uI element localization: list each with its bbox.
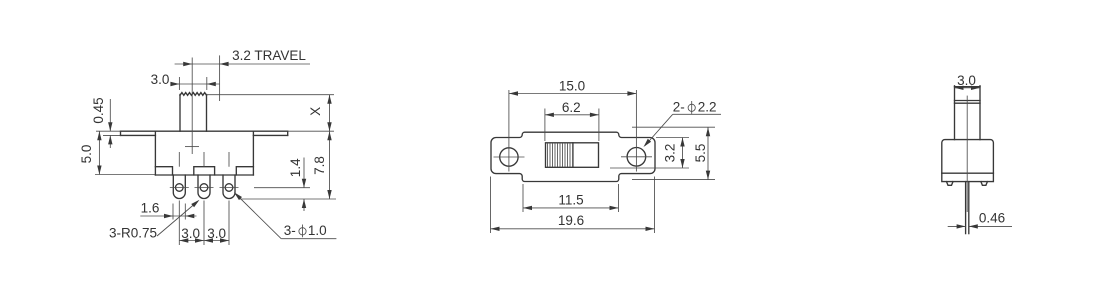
pin 2 outline — [198, 175, 210, 199]
dimension 3.0 knob left arrow — [170, 82, 179, 86]
svg-text:3.0: 3.0 — [151, 72, 170, 87]
knob hidden bottom line — [185, 146, 199, 148]
flange right end cap — [287, 131, 289, 135]
knob top extension line — [207, 94, 335, 96]
dimension 15.0 line — [509, 93, 636, 95]
side center line — [966, 96, 968, 212]
svg-text:5.0: 5.0 — [79, 145, 94, 164]
dimension X and 7.8 vertical line — [329, 95, 331, 199]
svg-text:3-: 3- — [284, 223, 296, 238]
dimension 11.5 right arrow — [610, 206, 619, 210]
svg-text:3.0: 3.0 — [957, 73, 976, 88]
svg-text:3.0: 3.0 — [207, 226, 226, 241]
dimension 3.0 side line — [955, 87, 981, 89]
pin 1 hole — [176, 184, 184, 192]
dimension 5.5 bottom arrow — [706, 171, 710, 180]
body bottom left extension line — [95, 174, 155, 176]
knob right extension line — [206, 77, 208, 90]
plate and body outline — [491, 132, 655, 181]
dimension 5.0 line — [98, 131, 100, 174]
pin 1 outline — [173, 175, 185, 199]
mounting hole right horizontal center line — [621, 156, 652, 158]
svg-text:19.6: 19.6 — [558, 213, 584, 228]
slot opening — [546, 143, 599, 168]
flange left end cap — [120, 131, 122, 135]
pin 2 hole horizontal center line — [195, 187, 214, 189]
pitch left arrow — [179, 238, 188, 242]
dimension 3.2 TRAVEL left arrow — [183, 62, 192, 66]
dimension 3.2 line — [682, 138, 684, 169]
dimension 3.0 pitch line — [179, 240, 229, 242]
pin 1 hole horizontal center line — [170, 187, 189, 189]
knob left side — [179, 95, 181, 132]
mounting hole right vertical center line — [635, 90, 637, 172]
dimension 11.5 line — [523, 207, 619, 209]
svg-text:11.5: 11.5 — [558, 193, 583, 208]
dimension 3.0 knob right arrow — [207, 82, 216, 86]
leader 3-phi1.0 arrow — [234, 192, 242, 200]
dimension 5.0 bottom arrow — [97, 166, 101, 175]
svg-text:15.0: 15.0 — [559, 78, 585, 93]
knob center line — [191, 58, 193, 155]
dimension 1.6 line — [140, 215, 196, 217]
svg-text:6.2: 6.2 — [562, 100, 581, 115]
leader 3-phi1.0 line — [236, 194, 281, 239]
ear top extension line — [656, 137, 689, 139]
ear bottom extension line — [610, 167, 689, 169]
dimension 7.8 top arrow — [327, 131, 331, 140]
leader 3-R0.75 — [157, 202, 198, 237]
dimension 15.0 left arrow — [509, 91, 518, 95]
dimension 0.46 right arrow — [969, 224, 978, 228]
slot right extension line — [598, 109, 600, 142]
knob serrated top — [180, 93, 207, 96]
svg-text:2.2: 2.2 — [698, 100, 717, 115]
pin 2 hole — [200, 184, 208, 192]
svg-text:3.2: 3.2 — [663, 144, 678, 163]
dimension 1.4 upper arrow — [302, 179, 306, 188]
slider knob hatch — [548, 143, 571, 167]
svg-text:3.0: 3.0 — [181, 226, 200, 241]
dimension X bottom arrow — [327, 122, 331, 131]
body right side — [252, 131, 254, 175]
slider knob right edge — [572, 143, 574, 168]
flange bottom left extension line — [103, 134, 121, 136]
leader 3-phi1.0 shelf — [281, 238, 336, 240]
pin bottom extension line — [240, 198, 336, 200]
pin 2 center line inside body — [203, 152, 205, 167]
body center tab interior line — [194, 167, 215, 175]
body right ledge interior line — [236, 167, 253, 175]
dimension 15.0 right arrow — [627, 91, 636, 95]
dimension 5.5 top arrow — [706, 127, 710, 136]
pin 3 outline — [223, 175, 235, 199]
leader 2-phi2.2 arrow — [644, 139, 652, 147]
svg-text:1.4: 1.4 — [288, 158, 303, 177]
svg-text:0.46: 0.46 — [979, 211, 1005, 226]
knob band lower line — [955, 102, 981, 104]
dimension 19.6 right arrow — [646, 227, 655, 231]
svg-text:1.0: 1.0 — [308, 223, 327, 238]
dimension 3.2 top arrow — [680, 138, 684, 147]
pin 1 center line inside body — [178, 152, 180, 167]
knob top edge — [955, 86, 981, 88]
dimension 0.45 lower arrow — [108, 135, 112, 144]
leader 2-phi2.2 line — [645, 114, 673, 145]
dimension 7.8 bottom arrow — [327, 190, 331, 199]
side pin left edge — [965, 182, 967, 234]
body right extension line — [618, 184, 620, 212]
svg-text:3-R0.75: 3-R0.75 — [109, 226, 157, 241]
dimension 6.2 left arrow — [545, 113, 554, 117]
dimension 19.6 left arrow — [491, 227, 500, 231]
dimension 6.2 line — [545, 114, 599, 116]
body left ledge interior line — [155, 167, 172, 175]
pin 3 hole horizontal center line — [220, 187, 239, 189]
pitch right arrow — [220, 238, 229, 242]
knob right side — [206, 95, 208, 132]
dimension 0.46 right line — [969, 225, 1012, 227]
body left extension line — [522, 184, 524, 212]
pin 1 left edge extension line — [172, 204, 174, 220]
dimension 3.0 side left arrow — [955, 86, 964, 90]
flange bottom edge left segment — [121, 134, 156, 136]
dimension 19.6 line — [491, 228, 655, 230]
svg-text:5.5: 5.5 — [693, 144, 708, 163]
dimension 1.6 left arrow — [164, 214, 173, 218]
travel extension line — [219, 55, 221, 101]
flange top edge — [121, 130, 288, 132]
flange bottom edge right segment — [253, 134, 287, 136]
dimension 3.0 knob line — [171, 83, 220, 85]
dimension 5.5 line — [707, 127, 709, 179]
pin 2 center extension line — [203, 201, 205, 246]
svg-text:X: X — [308, 107, 323, 116]
body top extension line — [632, 126, 715, 128]
dimension 0.46 left arrow — [957, 224, 966, 228]
mounting hole right — [627, 148, 646, 167]
knob right side — [979, 86, 981, 140]
dimension 0.46 left line — [948, 225, 966, 227]
plate left extension line — [490, 177, 492, 234]
knob left extension line — [178, 77, 180, 90]
svg-text:7.8: 7.8 — [312, 156, 327, 175]
side right foot — [981, 182, 988, 186]
pin 1 center extension line — [178, 201, 180, 246]
svg-text:2-: 2- — [673, 100, 685, 115]
side left foot — [947, 182, 954, 186]
flange top right extension line — [288, 130, 334, 132]
body left side — [154, 131, 156, 175]
dimension 0.45 upper line — [109, 99, 111, 131]
knob band upper line — [955, 100, 981, 102]
body bottom extension line — [632, 179, 715, 181]
mounting hole left horizontal center line — [494, 156, 525, 158]
leader 2-phi2.2 shelf — [673, 113, 721, 115]
svg-text:0.45: 0.45 — [91, 97, 106, 123]
flange top left extension line — [96, 130, 121, 132]
leader 3-R0.75 arrow — [191, 200, 199, 208]
pin 3 center extension line — [228, 201, 230, 246]
dimension 1.4 lower arrow — [302, 199, 306, 208]
dimension 0.45 lower line — [109, 135, 111, 148]
side pin right edge — [968, 182, 970, 234]
dimension X top arrow — [327, 95, 331, 104]
dimension 5.0 top arrow — [97, 131, 101, 140]
dimension 6.2 right arrow — [590, 113, 599, 117]
body bottom face — [155, 174, 253, 176]
knob left side — [954, 86, 956, 140]
dimension 3.0 side right arrow — [971, 86, 980, 90]
dimension 3.2 bottom arrow — [680, 159, 684, 168]
svg-text:1.6: 1.6 — [141, 201, 160, 216]
dimension 3.2 TRAVEL line — [175, 63, 310, 65]
dimension 11.5 left arrow — [523, 206, 532, 210]
pitch middle arrows — [195, 238, 204, 242]
mounting hole left — [500, 148, 518, 166]
mounting hole left vertical center line — [508, 90, 510, 172]
hole center extension line — [254, 187, 310, 189]
side body outline — [942, 140, 994, 182]
dimension 1.4 upper line — [303, 158, 305, 188]
dimension 0.45 upper arrow — [108, 122, 112, 131]
plate right extension line — [654, 177, 656, 234]
side body seam line — [942, 172, 994, 174]
dimension 1.4 lower line — [303, 199, 305, 211]
pin 3 center line inside body — [228, 152, 230, 167]
svg-text:3.2 TRAVEL: 3.2 TRAVEL — [232, 48, 306, 63]
pin 3 hole — [225, 184, 233, 192]
dimension 3.2 TRAVEL right arrow — [220, 62, 229, 66]
slot left extension line — [544, 109, 546, 142]
pin 1 right edge extension line — [184, 204, 186, 220]
dimension 1.6 right arrow — [185, 214, 194, 218]
